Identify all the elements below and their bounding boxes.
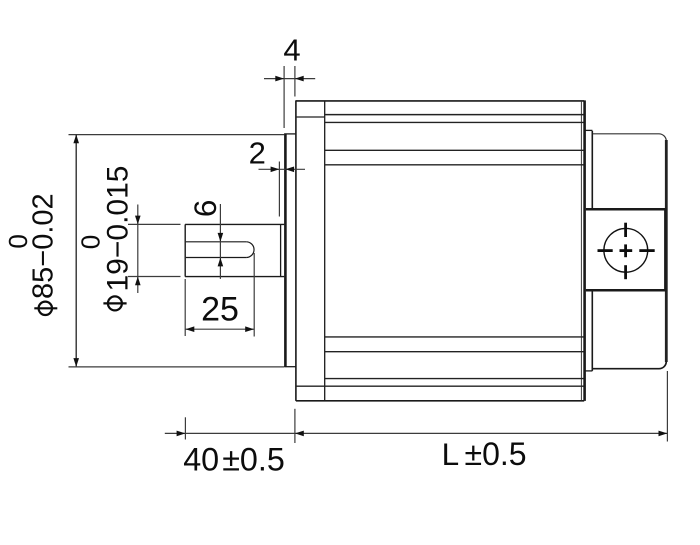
svg-text:40: 40 [183, 442, 219, 478]
svg-text:19−0.015: 19−0.015 [101, 166, 134, 292]
svg-text:±0.5: ±0.5 [465, 436, 527, 472]
svg-text:6: 6 [187, 200, 223, 218]
svg-text:4: 4 [283, 33, 300, 68]
svg-text:0: 0 [76, 235, 106, 249]
svg-text:0: 0 [3, 234, 33, 248]
svg-text:±0.5: ±0.5 [222, 442, 285, 478]
svg-text:2: 2 [249, 135, 266, 170]
svg-text:L: L [442, 436, 460, 472]
svg-text:25: 25 [201, 291, 239, 329]
